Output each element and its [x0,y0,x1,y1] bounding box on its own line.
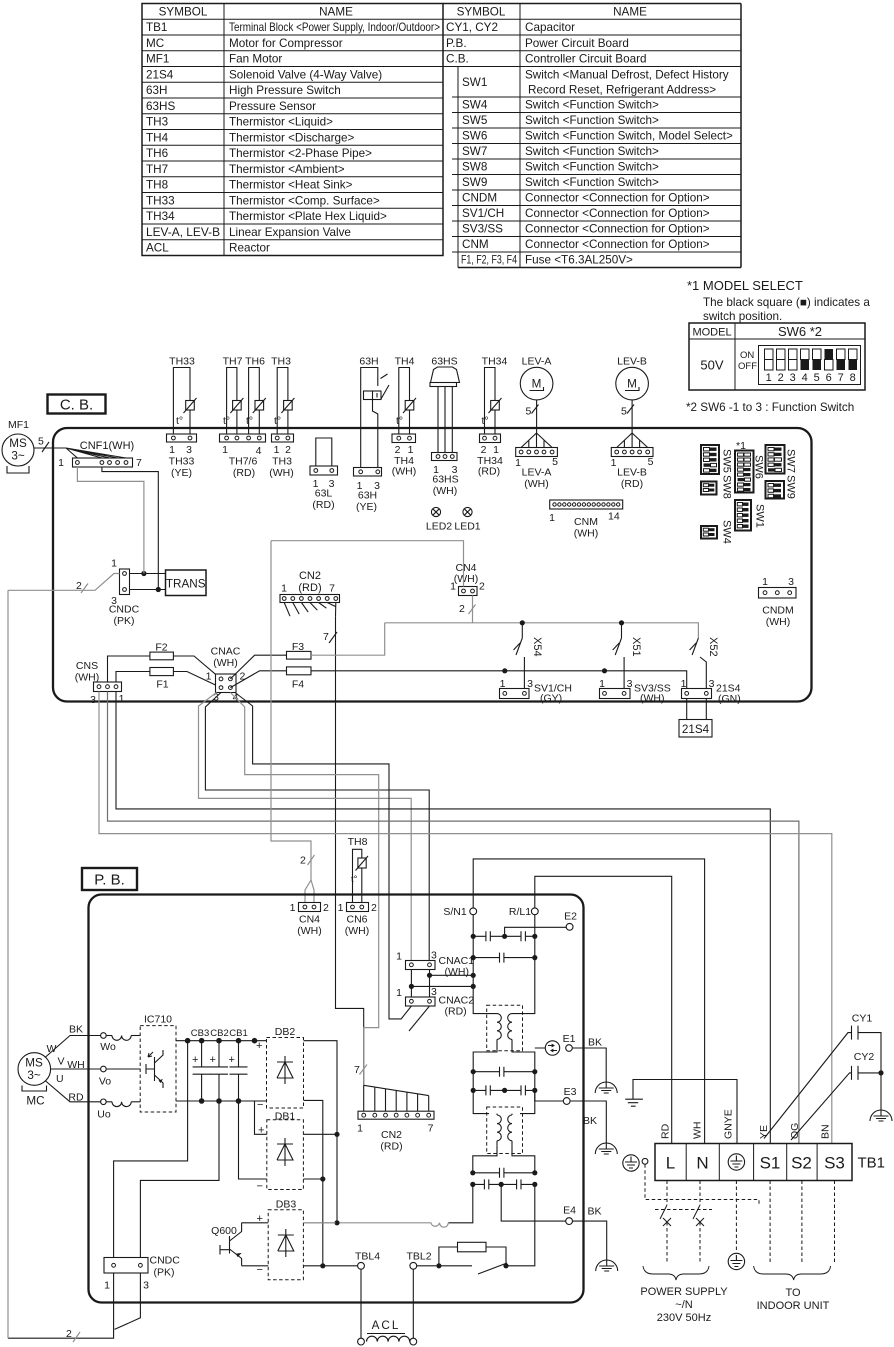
brace power supply [643,1266,709,1280]
svg-text:CB2: CB2 [210,1028,228,1039]
wire F4 black rail to 21S4 pin1 [311,671,687,689]
svg-text:CN2: CN2 [381,1129,402,1141]
dashed supply line L [666,1181,668,1206]
svg-text:Q600: Q600 [211,1225,237,1237]
svg-text:1: 1 [274,444,280,456]
connector CNAC1(WH) [406,961,436,970]
svg-text:(RD): (RD) [621,478,643,490]
svg-text:SYMBOL: SYMBOL [159,5,208,18]
svg-text:(RD): (RD) [478,466,500,478]
svg-text:7: 7 [838,372,844,384]
wire CY common to ground [880,1070,882,1116]
svg-text:F4: F4 [292,679,304,691]
svg-text:F1, F2, F3, F4: F1, F2, F3, F4 [461,254,517,267]
svg-text:2: 2 [371,902,377,914]
svg-text:LED1: LED1 [454,521,480,533]
dip switch SW7 [766,445,785,474]
svg-text:BK: BK [583,1115,597,1127]
svg-text:5: 5 [648,456,654,468]
terminal Vo [101,1066,107,1072]
svg-text:R/L1: R/L1 [509,906,531,918]
svg-text:7: 7 [329,583,335,595]
svg-text:Motor for Compressor: Motor for Compressor [229,37,343,50]
svg-text:Solenoid Valve (4-Way Valve): Solenoid Valve (4-Way Valve) [229,68,382,81]
svg-text:CNDC: CNDC [150,1255,181,1267]
wire CNF1 pin2 to CNDC junction [102,467,158,590]
wire CNS pin3 rail to TB1 S3 [99,692,832,1144]
svg-text:(RD): (RD) [312,499,334,511]
svg-text:Switch <Function Switch>: Switch <Function Switch> [525,161,659,174]
svg-text:t°: t° [246,415,253,427]
svg-text:1: 1 [396,951,402,963]
svg-text:LEV-B: LEV-B [617,467,647,479]
svg-text:CNDC: CNDC [109,604,140,616]
svg-text:3~: 3~ [11,450,25,463]
svg-text:(WH): (WH) [524,478,549,490]
svg-text:*1 MODEL SELECT: *1 MODEL SELECT [687,278,803,293]
svg-text:3~: 3~ [27,1069,41,1082]
wire DB3 plus output (gray) [304,1222,336,1224]
svg-text:IC710: IC710 [144,1014,172,1026]
svg-text:TH33: TH33 [169,456,195,468]
svg-text:Terminal Block <Power Supply,: Terminal Block <Power Supply, Indoor/Out… [229,21,440,34]
legend table left : row lines [142,19,443,240]
filter right bus [520,915,535,1014]
svg-text:SW7: SW7 [462,145,487,158]
svg-text:3: 3 [788,576,794,588]
wire F3 up to gray rail [311,623,385,655]
svg-text:RD: RD [660,1123,672,1139]
svg-text:2: 2 [778,372,784,384]
svg-text:21S4: 21S4 [146,68,174,81]
ground symbol below E4 [596,1260,618,1271]
wire Q600 emitter to DB3 minus [242,1265,269,1267]
svg-text:(WH): (WH) [445,966,470,978]
svg-text:−: − [257,1099,263,1111]
svg-text:1: 1 [111,558,117,570]
svg-text:INDOOR UNIT: INDOOR UNIT [757,1300,830,1312]
svg-text:5: 5 [552,456,558,468]
wire DB1 minus output [303,1178,322,1180]
svg-text:L: L [666,1154,675,1173]
wire CNAC pin2 to F3 [230,655,286,679]
svg-text:V: V [58,1056,65,1068]
svg-text:YE: YE [758,1125,770,1139]
svg-text:DB3: DB3 [276,1199,297,1211]
svg-text:7: 7 [323,631,329,643]
svg-text:Switch <Manual Defrost, Defect: Switch <Manual Defrost, Defect History [525,69,729,82]
relay contact X52 [692,638,706,689]
svg-text:LEV-A, LEV-B: LEV-A, LEV-B [146,226,220,239]
svg-text:TH3: TH3 [271,356,291,368]
svg-text:E4: E4 [563,1205,576,1217]
DC top bus from IC710 [176,1040,267,1042]
svg-text:14: 14 [608,511,620,523]
svg-text:TH8: TH8 [146,179,168,192]
svg-text:LEV-B: LEV-B [617,356,647,368]
svg-text:TH3: TH3 [272,456,292,468]
LED2 [431,507,440,516]
svg-text:NAME: NAME [319,5,353,18]
svg-text:BK: BK [588,1037,602,1049]
filter row 5 double caps [473,1089,535,1091]
shorting switch contact [439,1263,507,1274]
svg-text:Thermistor <2-Phase Pipe>: Thermistor <2-Phase Pipe> [229,147,372,160]
svg-text:Wo: Wo [100,1041,116,1053]
wire CNDC to TRANS (pin3) [130,589,166,591]
wire DB3 minus to TBL4 [304,1265,358,1267]
svg-text:1: 1 [104,1280,110,1292]
wire CNDC pin1 down-left 2-bundle [8,1273,114,1338]
svg-text:1: 1 [611,457,617,469]
transformer T1 bottom leads [473,1044,535,1072]
dip switch SW8 [701,482,717,495]
svg-text:2: 2 [300,855,306,867]
resistor on TBL2 bypass [458,1242,487,1252]
svg-text:MS: MS [25,1057,43,1070]
svg-text:(GN): (GN) [718,693,741,705]
svg-text:2: 2 [323,902,329,914]
svg-text:Linear Expansion Valve: Linear Expansion Valve [229,226,351,239]
C.B. board outline [53,428,812,702]
C.B. label box [48,395,106,414]
svg-text:MODEL: MODEL [692,327,731,339]
connector SV1/CH(GY) [500,689,530,699]
svg-text:(PK): (PK) [114,615,135,627]
svg-text:DB2: DB2 [275,1026,296,1038]
svg-text:(WH): (WH) [433,485,458,497]
svg-text:+: + [192,1054,198,1066]
svg-text:MC: MC [146,37,164,50]
svg-text:1: 1 [338,902,344,914]
IGBT glyph inside IC710 [146,1057,155,1081]
dashed earth line below TB1 [735,1181,737,1253]
svg-text:CN4: CN4 [299,914,320,926]
svg-text:3: 3 [627,678,633,690]
svg-text:SW9: SW9 [785,475,797,499]
svg-text:6: 6 [826,372,832,384]
svg-text:(WH): (WH) [213,657,238,669]
svg-text:LED2: LED2 [426,521,452,533]
ground symbol below E1 [595,1082,617,1093]
svg-text:(WH): (WH) [297,925,322,937]
svg-text:X52: X52 [707,637,719,657]
svg-text:1: 1 [58,457,64,469]
svg-text:CY1: CY1 [852,1013,873,1025]
svg-text:OFF: OFF [738,361,757,372]
svg-text:Fan Motor: Fan Motor [229,53,282,66]
transformer T2 bottom leads [473,1146,535,1173]
svg-text:−: − [257,1181,263,1193]
svg-text:Power Circuit Board: Power Circuit Board [525,37,629,50]
wire DB1 plus output [303,1133,337,1135]
svg-text:1: 1 [357,1123,363,1135]
wire 2-bundle from left into CNDC pin1 [8,574,120,591]
svg-text:TH7/6: TH7/6 [229,456,258,468]
terminal Wo [101,1033,107,1039]
dip switch SW6 in model table [759,346,861,385]
svg-text:TH4: TH4 [146,131,169,144]
wire bus to DB1 minus [239,1101,267,1179]
svg-text:63HS: 63HS [432,474,458,486]
svg-text:7: 7 [428,1123,434,1135]
svg-text:TH4: TH4 [395,356,415,368]
svg-text:SV1/CH: SV1/CH [462,207,504,220]
svg-text:1: 1 [766,372,772,384]
svg-text:63H: 63H [359,356,378,368]
wire CNS pin1 rail to TB1 S1 [116,692,770,1144]
svg-text:MC: MC [26,1095,44,1108]
dip switch SW4 [701,526,717,539]
svg-text:(RD): (RD) [233,467,255,479]
svg-text:MF1: MF1 [146,53,169,66]
svg-text:E2: E2 [564,911,577,923]
svg-text:TRANS: TRANS [166,578,206,591]
dip switch SW1 [735,500,751,531]
svg-text:(WH): (WH) [640,693,665,705]
wire CNS to F2 [108,656,150,682]
circled earth at power supply [728,1253,744,1269]
svg-text:Uo: Uo [97,1109,111,1121]
junction dots at TRANS wires [141,571,146,576]
svg-text:DB1: DB1 [275,1111,296,1123]
filter row 4 single cap [473,1071,535,1073]
connector CNDC(PK) on P.B. [104,1258,148,1274]
diode glyph DB3 [278,1229,294,1257]
filter left bus [473,915,489,1014]
svg-text:1: 1 [762,576,768,588]
filter row 6 single cap [473,1172,535,1174]
svg-text:63H: 63H [358,490,377,502]
svg-text:SW5: SW5 [462,114,488,127]
legend table left : column divider [223,4,225,256]
svg-text:5: 5 [526,406,532,418]
svg-text:E3: E3 [564,1086,577,1098]
svg-text:CNDM: CNDM [462,192,497,205]
wire CN4 pin2 down to gray rail with 2-slash [472,596,474,623]
connector 21S4(GN) [682,689,712,699]
LED1 [463,507,472,516]
svg-text:SW6: SW6 [462,130,487,143]
model select table [689,323,865,390]
svg-text:SW6 *2: SW6 *2 [778,324,822,339]
svg-text:t°: t° [482,415,489,427]
svg-text:(GY): (GY) [540,693,562,705]
coil bumps on DB3 wire [304,1223,449,1227]
svg-text:P. B.: P. B. [94,872,125,889]
svg-text:TBL2: TBL2 [406,1251,431,1263]
wires TBL4 TBL2 down to ACL [361,1269,413,1338]
svg-text:S/N1: S/N1 [443,906,467,918]
wire CNAC1 pin3 to bus [430,970,474,998]
svg-text:(RD): (RD) [380,1141,402,1153]
filter row 7 double caps [473,1183,535,1185]
svg-text:MS: MS [9,437,27,450]
svg-text:(WH): (WH) [454,573,479,585]
svg-text:3: 3 [186,444,192,456]
svg-text:63H: 63H [146,84,167,97]
svg-text:Controller Circuit Board: Controller Circuit Board [525,53,646,66]
terminal Uo [101,1099,107,1105]
svg-text:1: 1 [500,678,506,690]
svg-text:(WH): (WH) [574,528,599,540]
wire F2 to CNAC pin1 [173,656,221,679]
connector CN6(WH) [347,903,369,912]
svg-text:1: 1 [599,678,605,690]
svg-text:SW6: SW6 [753,455,765,479]
svg-text:BK: BK [587,1206,601,1218]
diode glyph DB1 [277,1138,293,1166]
svg-text:1: 1 [206,671,212,683]
svg-text:M: M [627,378,637,391]
svg-text:C. B.: C. B. [60,397,93,414]
relay contact X54 [516,623,524,689]
P.B. board outline [89,895,584,1303]
svg-text:CNS: CNS [76,660,98,672]
svg-text:1: 1 [290,902,296,914]
filter row 1 with caps and E2 tap [473,935,535,937]
dip switch SW5 [701,445,719,474]
wire CNAC pin4 inner to CN2 bundle (gray) [230,693,378,1086]
svg-text:Reactor: Reactor [229,242,270,255]
ground symbol below CY2 [870,1110,892,1121]
svg-text:230V 50Hz: 230V 50Hz [657,1312,711,1324]
wire CNF1 pin1 to CNDC junction (gray) [77,467,143,574]
wire DC+ rail from DB2 to DB1/DB3 plus [304,1041,338,1223]
svg-text:63HS: 63HS [146,100,175,113]
junction dots on rails [520,620,525,625]
svg-text:TH33: TH33 [169,356,195,368]
motor leads [45,1036,101,1058]
svg-text:NAME: NAME [613,5,647,18]
svg-text:50V: 50V [700,358,723,373]
svg-text:S2: S2 [791,1154,812,1173]
svg-text:21S4: 21S4 [682,723,710,736]
svg-text:Thermistor <Liquid>: Thermistor <Liquid> [229,116,333,129]
solenoid valve 21S4 box [679,720,712,738]
svg-text:(WH): (WH) [392,466,417,478]
wire Q600 collector to DB3 plus [242,1222,269,1224]
transformer TRANS box [166,570,207,596]
svg-text:TB1: TB1 [858,1155,886,1172]
svg-text:F1: F1 [156,679,168,691]
svg-text:Connector <Connection for Opti: Connector <Connection for Option> [525,223,710,236]
connector SV3/SS(WH) [600,689,631,699]
wire CNAC pin4 outer to CNAC2 [235,693,411,1019]
svg-text:t°: t° [351,874,358,885]
diode glyph DB2 [277,1056,293,1084]
ground wire to earth cell [625,1099,643,1106]
svg-text:3: 3 [709,678,715,690]
wire top bus down to CNDC pin1 [114,1041,188,1258]
transformer T2 windings [497,1115,501,1141]
wire CNAC pin4 to F4 [230,671,286,688]
svg-text:SW4: SW4 [721,520,733,544]
svg-text:8: 8 [850,372,856,384]
svg-text:Thermistor <Discharge>: Thermistor <Discharge> [229,131,355,144]
svg-text:5: 5 [38,436,44,448]
svg-text:U: U [56,1073,64,1085]
connector CNDC(PK) on C.B. [120,569,130,595]
svg-text:*2 SW6 -1 to 3 : Function Swi: *2 SW6 -1 to 3 : Function Switch [686,401,854,414]
vertical DB1- to TBL4 bus [304,1100,323,1265]
svg-text:BN: BN [820,1124,832,1139]
svg-text:LEV-A: LEV-A [522,356,552,368]
brace to indoor unit [754,1266,831,1280]
svg-text:1: 1 [222,444,228,456]
svg-text:(YE): (YE) [171,467,192,479]
svg-text:+: + [229,1054,235,1066]
svg-text:1: 1 [681,678,687,690]
wire right bus down to shorting switch [506,1184,535,1265]
connector CNAC2(RD) [406,997,436,1006]
connector CN4(WH) on P.B. [299,903,321,912]
ground symbol below E3 [595,1143,617,1154]
svg-text:t°: t° [274,415,281,427]
svg-text:Thermistor <Heat Sink>: Thermistor <Heat Sink> [229,179,353,192]
svg-text:(WH): (WH) [345,925,370,937]
svg-text:CY2: CY2 [854,1051,875,1063]
svg-text:3: 3 [527,678,533,690]
wire CNS to F1 [116,672,150,683]
svg-text:+: + [210,1054,216,1066]
wire CB2 column down to CNDC pin3 [140,1101,219,1258]
svg-text:Thermistor <Plate Hex Liquid>: Thermistor <Plate Hex Liquid> [229,210,387,223]
svg-text:Connector <Connection for Opti: Connector <Connection for Option> [525,192,710,205]
svg-text:4: 4 [802,372,808,384]
wire CNAC pin3 inner to CNAC1 pin3 [205,693,429,961]
svg-text:SW7: SW7 [785,449,797,473]
P.B. label box [82,868,137,890]
svg-text:5: 5 [814,372,820,384]
svg-text:(RD): (RD) [298,582,321,594]
svg-text:1: 1 [515,457,521,469]
svg-text:Record Reset, Refrigerant Addr: Record Reset, Refrigerant Address> [528,84,716,97]
svg-text:Thermistor <Comp. Surface>: Thermistor <Comp. Surface> [229,194,380,207]
svg-text:CNM: CNM [462,238,489,251]
filter buses between rows [473,1072,535,1114]
svg-text:3: 3 [431,950,437,962]
svg-text:Vo: Vo [99,1076,111,1088]
svg-text:63HS: 63HS [431,356,457,368]
svg-text:2: 2 [285,444,291,456]
svg-text:TO: TO [785,1287,801,1299]
svg-text:TH7: TH7 [146,163,168,176]
wire MF1 to CNF1 with 5-bundle slash [34,447,66,449]
svg-text:SYMBOL: SYMBOL [457,5,506,18]
wire CNDC to TRANS (pin1) [130,573,166,575]
svg-text:S1: S1 [760,1154,781,1173]
svg-text:TH6: TH6 [146,147,168,160]
svg-text:1: 1 [169,444,175,456]
svg-text:TH7: TH7 [223,356,243,368]
svg-text:SW1: SW1 [462,76,487,89]
svg-text:Switch <Function Switch>: Switch <Function Switch> [525,114,659,127]
wire CN4 pin1 up-left to gray riser [271,541,464,587]
legend table left : text [146,5,440,254]
svg-text:63L: 63L [315,488,333,500]
wire fan CN2 7-bundle [284,603,336,617]
connector 63L [316,438,332,466]
svg-text:Connector <Connection for Opti: Connector <Connection for Option> [525,207,710,220]
svg-text:TH3: TH3 [146,116,168,129]
svg-text:(YE): (YE) [356,501,377,513]
svg-text:2: 2 [76,580,82,592]
wires 21S4 connector to valve box [687,699,707,720]
svg-text:7: 7 [136,457,142,469]
svg-text:Pressure Sensor: Pressure Sensor [229,100,316,113]
dip switch SW9 [766,481,785,499]
